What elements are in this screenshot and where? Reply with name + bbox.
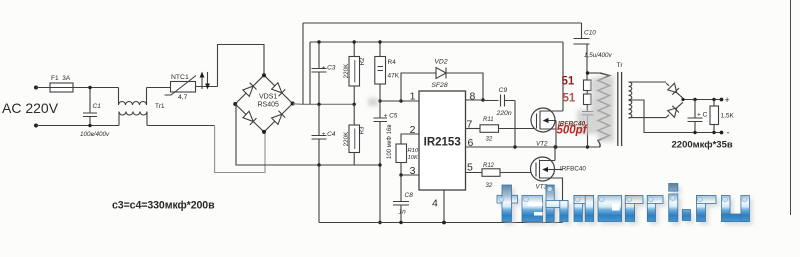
- capacitor C10: [574, 23, 590, 80]
- label SF28: [431, 82, 447, 89]
- label 1n: [399, 209, 407, 216]
- wire center tap: [629, 100, 723, 133]
- svg-text:C10: C10: [584, 30, 596, 37]
- label pin5: [467, 162, 473, 174]
- resistor R12: [482, 169, 536, 177]
- svg-text:RS405: RS405: [258, 102, 280, 109]
- svg-text:2200мкф*35в: 2200мкф*35в: [672, 140, 733, 151]
- label pin7: [467, 119, 473, 131]
- wire pin1: [380, 99, 419, 102]
- svg-text:VDS1: VDS1: [259, 94, 277, 101]
- label pin8: [470, 91, 476, 103]
- svg-text:51: 51: [563, 93, 576, 105]
- transformer Tr secondary upper: [629, 82, 667, 100]
- svg-text:32: 32: [486, 183, 493, 189]
- svg-text:IRFBC40: IRFBC40: [560, 166, 586, 173]
- wire plus mid bus: [293, 103, 355, 106]
- label pin1: [410, 91, 416, 103]
- wire pin5: [466, 172, 483, 174]
- label 220n: [496, 110, 512, 117]
- svg-text:4,7: 4,7: [178, 94, 188, 101]
- label RS405: [258, 102, 280, 109]
- label 1,5K: [721, 113, 735, 120]
- svg-text:10K: 10K: [408, 155, 419, 161]
- transformer Tr core: [618, 72, 622, 146]
- watermark tehnari.ru: [497, 184, 753, 225]
- svg-text:+ C4: + C4: [322, 131, 336, 138]
- svg-text:5: 5: [467, 162, 473, 174]
- label R4: [388, 59, 397, 66]
- transformer Tr secondary lower: [629, 100, 667, 118]
- bridge rectifier VDS1 diamond: [235, 75, 292, 132]
- diode output D1: [666, 83, 683, 98]
- svg-text:100в/400v: 100в/400v: [80, 131, 110, 138]
- wire NTC riser to bridge top: [218, 45, 265, 87]
- capacitor C5: [374, 99, 388, 224]
- svg-text:+ C5: + C5: [384, 113, 398, 120]
- label R12: [483, 163, 495, 169]
- svg-text:51: 51: [562, 76, 575, 88]
- label 100мкФ 16в: [387, 124, 393, 159]
- inductor Tr1 bottom winding: [119, 112, 147, 126]
- diode output D2: [666, 102, 683, 117]
- svg-text:47K: 47K: [388, 73, 400, 80]
- wire pin6 VS: [466, 145, 601, 149]
- svg-text:R3: R3: [359, 126, 366, 135]
- transistor Q VT3: [531, 147, 563, 223]
- label NTC1: [171, 74, 189, 81]
- wire minus from bridge left corner: [235, 104, 380, 165]
- svg-text:SF28: SF28: [431, 82, 447, 89]
- svg-text:C1: C1: [93, 103, 102, 110]
- arrow down: [205, 72, 210, 90]
- capacitor C output 2200uF: [688, 100, 703, 135]
- capacitor C1: [83, 86, 97, 127]
- svg-text:Tr1: Tr1: [155, 103, 165, 110]
- wire pin3: [399, 173, 419, 176]
- wire rail2: [310, 41, 563, 43]
- diode VD2 bootstrap: [401, 68, 483, 102]
- label 2200мкф 35в: [672, 140, 733, 151]
- wire top AC line: [36, 87, 119, 89]
- label 220K R2: [343, 63, 350, 79]
- label IRFBC40 black: [560, 166, 586, 173]
- svg-text:1,5u/400v: 1,5u/400v: [584, 52, 613, 59]
- svg-text:C8: C8: [405, 192, 414, 199]
- label C10: [584, 30, 596, 37]
- svg-text:R4: R4: [388, 59, 397, 66]
- label C9: [499, 87, 508, 94]
- label F1 3A: [51, 75, 71, 82]
- node bridge corners: [233, 73, 294, 134]
- bridge diode top-right: [272, 83, 286, 97]
- label 47K: [388, 73, 400, 80]
- svg-text:7: 7: [467, 119, 473, 131]
- svg-text:+ C: + C: [697, 112, 708, 119]
- wire pin7: [466, 128, 481, 130]
- label 4,7: [178, 94, 188, 101]
- label 51 lower red: [563, 93, 576, 105]
- label AC 220V: [2, 100, 59, 116]
- bridge diode bottom-right: [272, 111, 286, 125]
- label 100в/400v: [80, 131, 110, 138]
- label IRFBC40 maroon: [558, 121, 585, 128]
- label pin2: [410, 124, 416, 136]
- wire output plus: [681, 98, 723, 102]
- label R10: [408, 148, 419, 154]
- svg-text:3: 3: [410, 165, 416, 177]
- svg-text:R12: R12: [483, 163, 495, 169]
- svg-text:2: 2: [410, 124, 416, 136]
- label c3=c4 note: [112, 200, 215, 212]
- label C8: [405, 192, 414, 199]
- svg-text:100 мкФ 16в: 100 мкФ 16в: [387, 124, 393, 159]
- label +C3: [322, 65, 336, 72]
- svg-text:R2: R2: [359, 57, 366, 66]
- label VT2: [536, 141, 548, 148]
- label C1: [93, 103, 102, 110]
- svg-text:NTC1: NTC1: [171, 74, 189, 81]
- node AC terminal top: [34, 86, 38, 90]
- label pin4: [432, 198, 438, 210]
- svg-text:Tr: Tr: [617, 62, 624, 69]
- capacitor snubber 500pF: [582, 112, 594, 148]
- label VD2: [434, 59, 447, 66]
- capacitor C3: [312, 40, 327, 106]
- svg-text:220K: 220K: [343, 63, 350, 79]
- resistor R10: [396, 144, 407, 175]
- capacitor C9: [483, 95, 515, 148]
- svg-text:R10: R10: [408, 148, 419, 154]
- wire rail1 riser: [302, 23, 304, 104]
- label +C output: [697, 112, 708, 119]
- label 10K: [408, 155, 419, 161]
- op-amp IC U1 IR2153 body: [419, 91, 466, 190]
- svg-text:4: 4: [432, 198, 438, 210]
- capacitor C8: [393, 175, 409, 224]
- svg-text:+: +: [725, 95, 730, 105]
- label +C4: [322, 131, 336, 138]
- label Tr1: [155, 103, 165, 110]
- svg-text:1: 1: [410, 91, 416, 103]
- svg-text:IR2153: IR2153: [424, 137, 461, 149]
- svg-text:C9: C9: [499, 87, 508, 94]
- wire pin4: [442, 190, 446, 224]
- label 32 R11: [486, 137, 493, 143]
- thermistor NTC1: [165, 76, 197, 96]
- label Tr: [617, 62, 624, 69]
- svg-text:-: -: [727, 128, 730, 138]
- svg-text:с3=с4=330мкф*200в: с3=с4=330мкф*200в: [112, 200, 215, 212]
- svg-text:R11: R11: [483, 117, 494, 123]
- wire ground rail riser: [318, 165, 320, 223]
- watermark gray smear patches: [368, 76, 614, 142]
- bridge diode top-left: [243, 83, 257, 97]
- svg-text:6: 6: [468, 137, 474, 149]
- wire snubber to primary top: [586, 71, 600, 74]
- svg-text:VT2: VT2: [536, 141, 548, 148]
- label 32 R12: [486, 183, 493, 189]
- border line right edge: [790, 0, 792, 215]
- wire pin2 to R10: [401, 134, 419, 144]
- wire bottom line to detour: [147, 125, 215, 127]
- capacitor C4: [312, 104, 327, 166]
- svg-text:VD2: VD2: [434, 59, 447, 66]
- node AC terminal bottom: [34, 124, 38, 128]
- resistor 1.5k: [710, 100, 723, 135]
- svg-text:220K: 220K: [343, 131, 350, 147]
- resistor 51 lower: [584, 94, 592, 112]
- svg-text:220n: 220n: [496, 110, 512, 117]
- inductor Tr1 top winding: [119, 88, 171, 106]
- svg-text:+ C3: + C3: [322, 65, 336, 72]
- label 51 upper red: [562, 76, 575, 88]
- fuse F1: [50, 83, 73, 92]
- wire pin8: [466, 98, 485, 101]
- label pin3: [410, 165, 416, 177]
- svg-text:500pf: 500pf: [557, 125, 588, 137]
- label R2: [359, 57, 366, 66]
- wire NTC right: [196, 86, 218, 88]
- label 1,5u/400v: [584, 52, 613, 59]
- label +C5: [384, 113, 398, 120]
- wire AC detour to bridge bottom: [215, 126, 265, 173]
- transformer Tr primary winding: [598, 73, 610, 147]
- transistor Q VT2: [531, 42, 563, 147]
- resistor R2 220K: [349, 40, 360, 106]
- svg-text:1,5K: 1,5K: [721, 113, 735, 120]
- bridge diode bottom-left: [243, 111, 257, 125]
- svg-text:8: 8: [470, 91, 476, 103]
- resistor 51 upper: [584, 80, 592, 94]
- svg-text:F1 3A: F1 3A: [51, 75, 71, 82]
- label R11: [483, 117, 494, 123]
- wire rail1 top: [303, 22, 582, 24]
- label VT3: [536, 184, 548, 191]
- svg-text:AC 220V: AC 220V: [2, 100, 59, 116]
- resistor R4 47K: [375, 40, 386, 101]
- resistor R3 220K: [349, 104, 360, 165]
- label VDS1: [259, 94, 277, 101]
- label pin6: [468, 137, 474, 149]
- label plus terminal: [725, 95, 730, 105]
- wire rail2 riser: [309, 42, 311, 104]
- label IR2153: [424, 137, 461, 149]
- wire bottom ground rail: [319, 222, 563, 224]
- arrow up: [200, 72, 205, 90]
- resistor R11: [480, 125, 537, 133]
- svg-text:32: 32: [486, 137, 493, 143]
- label R3: [359, 126, 366, 135]
- label minus terminal: [727, 128, 730, 138]
- svg-text:1n: 1n: [399, 209, 407, 216]
- wire bottom AC line: [36, 125, 119, 127]
- label 500pf red: [557, 125, 588, 137]
- label 220K R3: [343, 131, 350, 147]
